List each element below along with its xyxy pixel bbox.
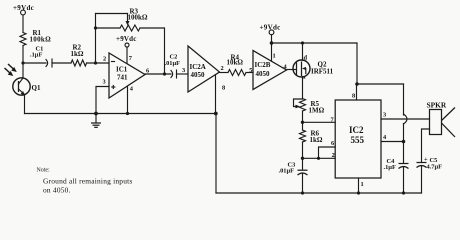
svg-text:+9Vdc: +9Vdc [13,4,34,12]
capacitor C4 1uF [384,142,409,194]
buffer IC2A 4050 triangle [188,46,220,92]
svg-text:3: 3 [103,79,106,86]
wire pin 3 to ground rail [96,87,109,114]
junction dot +9V corner node [355,82,359,86]
svg-text:4050: 4050 [191,71,206,79]
wire +9V rail corner down [356,43,358,84]
svg-text:10kΩ: 10kΩ [227,59,244,67]
wire C2 to IC2A pin 3 [177,73,189,75]
wire feedback top run [96,13,128,15]
svg-text:.01µF: .01µF [165,60,181,67]
junction dot drain/rail [301,41,304,44]
wire pin 7 [126,47,128,64]
wire rail down to bottom ground rail [215,114,217,194]
wire pin 6 stub [319,147,336,158]
+9V rail to the right [272,42,358,44]
resistor R4 10k [227,54,247,76]
svg-text:4050: 4050 [256,70,271,78]
resistor R2 1k [71,44,87,67]
junction dot pin1 on rail [357,191,360,194]
svg-text:2: 2 [221,65,224,72]
node C junction dot (pin 7) [301,121,304,124]
power terminal +9Vdc (left, above R1) [13,4,34,15]
wire R3 left lead to feedback vertical [96,27,121,29]
potentiometer R5 1M [300,99,325,115]
svg-text:5: 5 [249,67,252,74]
svg-text:1kΩ: 1kΩ [310,136,323,144]
wiper arrow of potentiometer R3 [126,14,130,26]
wire R5 to node C [302,111,304,130]
svg-text:SPKR: SPKR [427,101,447,110]
svg-text:IC1: IC1 [116,66,128,74]
svg-text:.1µF: .1µF [384,164,396,171]
bottom ground rail [216,192,422,194]
pin 2 label and minus [103,56,115,63]
wiper loop of R5 [294,99,303,108]
wire reset column with hop over pin3 wire [404,84,408,142]
speaker SPKR [427,101,456,138]
svg-text:100kΩ: 100kΩ [128,14,148,22]
wire Q2 drain to +9V rail [302,43,304,61]
wire 555 pin 8 up to +9V node [356,84,358,100]
svg-text:6: 6 [331,140,335,147]
svg-text:8: 8 [222,85,225,92]
svg-text:4: 4 [383,134,387,141]
svg-text:s: s [303,74,306,81]
wire node A to C1 [23,62,46,64]
light arrows into Q1 [5,64,17,76]
svg-text:+9Vdc: +9Vdc [116,35,137,43]
junction dot pin 4 on rail [126,112,129,115]
node A junction dot [21,61,24,64]
wire IC2A pin 8 down to ground rail [215,75,217,114]
junction dot +9V rail [270,41,274,45]
svg-text:IRF511: IRF511 [311,68,334,76]
ground rail (left, y=113.5) [25,113,217,115]
junction dot pin8/rail corner [214,112,218,116]
wire R1 to node A [22,46,24,64]
svg-text:3: 3 [383,112,386,119]
wire feedback left vertical [95,14,97,64]
svg-text:on 4050.: on 4050. [43,186,71,195]
wire +9V over to reset column [357,83,404,85]
node D junction dot [301,157,304,160]
wire IC1 output to C2 [145,73,171,75]
resistor R1 100k [20,29,51,45]
wire terminal to R1 [22,15,24,33]
svg-text:IC2A: IC2A [190,63,206,71]
svg-text:Ground all remaining inputs: Ground all remaining inputs [43,177,132,186]
node B junction dot (feedback tap) [94,61,97,64]
wire IC2A output to R4 [220,72,229,74]
wire 555 pin 4 [381,141,404,143]
wire Q1 collector up to node A [22,63,24,78]
transistor Q2 IRF511 [293,55,334,82]
svg-text:3: 3 [182,67,185,74]
wire Q2 source down to R5 [302,77,304,99]
svg-text:+9Vdc: +9Vdc [260,24,281,32]
resistor R6 1k [300,130,323,145]
svg-text:555: 555 [351,135,365,145]
phototransistor Q1 [13,78,41,95]
wire C1 to R2 [52,62,71,64]
junction dot pin3/ground [94,112,98,116]
capacitor C1 .1uF [30,46,52,68]
wire 555 pin 3 to speaker [381,118,430,120]
wire 555 pin 1 down to ground rail [358,178,360,193]
wire speaker return to C5 [422,129,430,162]
junction dot C3 on ground rail [301,191,304,194]
svg-text:IC2B: IC2B [255,61,271,69]
wire node D to 555 pin 2 [303,157,336,159]
pin 3 label and plus [103,79,115,89]
svg-text:d: d [304,55,308,62]
svg-text:8: 8 [352,93,355,100]
junction dot output/feedback [163,72,166,75]
capacitor C3 .01uF [279,158,308,193]
svg-text:4: 4 [130,86,134,93]
svg-text:1kΩ: 1kΩ [71,50,84,58]
potentiometer R3 100k [120,8,148,32]
junction dot R3 left lead [94,26,97,29]
wire terminal down to +9V rail node [271,35,273,43]
svg-text:.01µF: .01µF [279,168,295,175]
capacitor C5 4.7uF electrolytic [417,156,443,193]
wire R6 to node D [302,142,304,158]
svg-text:Note:: Note: [37,168,50,174]
svg-text:4.7µF: 4.7µF [427,164,443,171]
svg-text:IC2: IC2 [349,125,364,135]
svg-text:2: 2 [332,152,335,159]
capacitor C2 .01uF [165,54,181,79]
wire R3 right lead and down to output node [140,28,165,74]
wire R2 to IC1 pin 2 [87,62,110,64]
wire Q1 emitter down to ground rail [24,95,26,114]
svg-text:Q1: Q1 [32,84,41,92]
svg-text:.1µF: .1µF [30,52,42,59]
junction dot C4 on ground rail [402,191,405,194]
svg-text:1MΩ: 1MΩ [309,107,325,115]
note text [37,168,133,195]
junction dot pin4/reset [402,140,406,144]
wire pin 4 down to ground rail [127,86,129,114]
svg-text:7: 7 [129,55,133,62]
wire IC2B pin 1 [271,43,273,61]
svg-text:100kΩ: 100kΩ [30,36,52,44]
wire node C to 555 pin 7 [303,121,336,123]
buffer IC2B 4050 triangle [253,51,287,90]
ground symbol [91,114,101,128]
svg-text:1: 1 [361,181,364,188]
power terminal +9Vdc (IC2B pin 1) [260,24,281,35]
svg-text:741: 741 [117,74,128,82]
svg-text:1: 1 [273,53,276,60]
timer IC2 555 [335,100,381,178]
wire IC2B output to Q2 gate [287,69,297,71]
svg-text:2: 2 [103,56,106,63]
op-amp U IC1 741 triangle [109,53,145,98]
power terminal +9Vdc (IC1 pin 7) [116,35,137,47]
wire R4 to IC2B pin 5 [246,72,253,74]
